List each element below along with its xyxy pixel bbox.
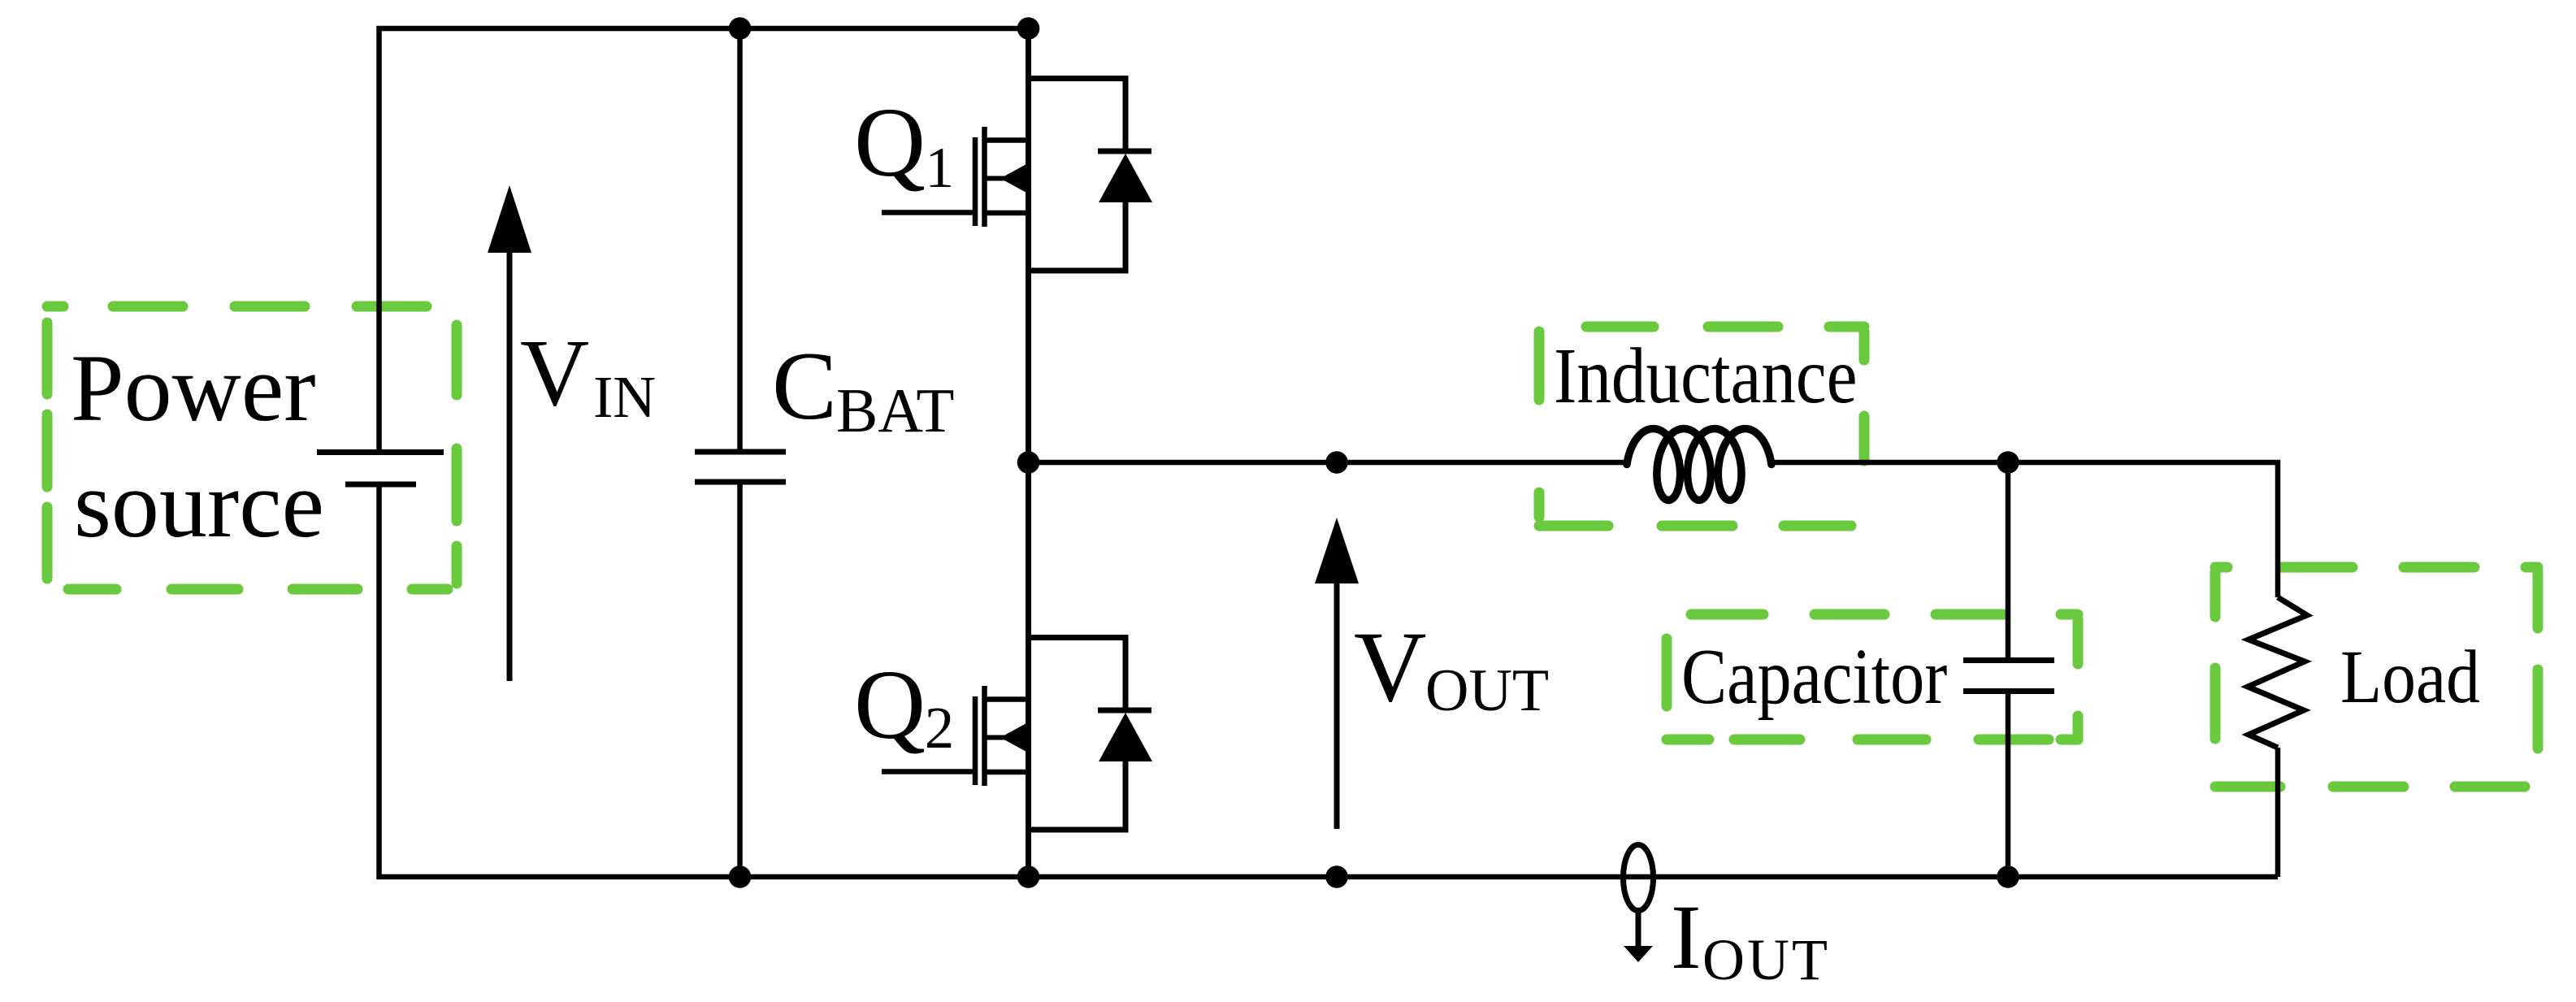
battery power source plates: [317, 449, 444, 455]
Q1 gate bar: [973, 137, 978, 226]
svg-text:Q: Q: [854, 650, 926, 760]
inductance dashed box: [1539, 327, 1864, 526]
node dot bottom Q2: [1017, 865, 1040, 888]
svg-text:2: 2: [925, 695, 955, 761]
wire: capacitor branch lower: [2006, 694, 2011, 877]
wire: capacitor branch upper: [2006, 462, 2011, 657]
wire: battery bottom to bottom-left corner and bottom rail: [379, 488, 2279, 878]
node dot bottom Vout: [1325, 865, 1348, 888]
Q2 drain lead: [987, 696, 1030, 702]
wire: mid rail right of inductor to load corner: [1772, 462, 2278, 597]
capacitor dashed box: [1667, 614, 2078, 740]
Q2 body connection with arrow: [986, 735, 1028, 740]
wire: CBAT branch upper: [737, 28, 743, 449]
node dot bottom capacitor: [1997, 865, 2019, 888]
svg-text:Inductance: Inductance: [1554, 332, 1858, 419]
svg-text:OUT: OUT: [1425, 657, 1549, 724]
transistor Q1: [882, 127, 1030, 227]
wire: mid rail left of inductor: [1028, 460, 1627, 466]
load resistor zigzag: [2248, 597, 2307, 748]
svg-text:C: C: [772, 332, 837, 440]
Q1 body connection with arrow: [986, 176, 1028, 181]
svg-text:IN: IN: [593, 364, 656, 430]
wire: CBAT branch lower: [737, 484, 743, 877]
svg-text:Capacitor: Capacitor: [1681, 632, 1947, 720]
power source dashed box: [47, 306, 457, 589]
body diode of Q2: [1028, 638, 1152, 831]
svg-text:V: V: [1354, 611, 1427, 722]
svg-text:Load: Load: [2340, 635, 2480, 719]
capacitor CBAT plates: [695, 449, 786, 455]
I_OUT current sensor ellipse: [1624, 845, 1654, 911]
load dashed box: [2215, 567, 2538, 787]
inductor coil: [1627, 429, 1772, 501]
wire: load bottom lead: [2275, 748, 2281, 877]
Q2 gate bar: [973, 696, 978, 785]
wire: battery top to top-left corner and top rail: [379, 28, 1032, 449]
V_IN arrow: [507, 248, 513, 681]
node dot mid Vout: [1325, 451, 1348, 474]
svg-text:V: V: [520, 319, 589, 426]
I_OUT arrow: [1636, 910, 1641, 948]
V_OUT arrow: [1334, 579, 1340, 829]
body diode of Q1: [1028, 79, 1152, 271]
Q1 source lead: [987, 210, 1030, 216]
node dot top CBAT: [729, 17, 752, 40]
Q2 source lead: [987, 770, 1030, 775]
svg-text:BAT: BAT: [836, 375, 954, 445]
svg-text:Power: Power: [71, 335, 316, 441]
wire: main switch vertical: [1026, 26, 1031, 877]
svg-text:Q: Q: [854, 88, 926, 197]
svg-text:source: source: [74, 451, 324, 557]
svg-text:OUT: OUT: [1702, 927, 1830, 992]
Q1 channel bar: [982, 127, 987, 227]
Q1 drain lead: [987, 137, 1030, 143]
Q2 channel bar: [982, 686, 987, 786]
transistor Q2: [882, 686, 1030, 786]
node dot mid capacitor: [1997, 451, 2019, 474]
node dot mid switch: [1017, 451, 1040, 474]
Q2 gate lead: [882, 769, 978, 774]
Q1 gate lead: [882, 210, 978, 215]
node dot bottom CBAT: [729, 865, 752, 888]
svg-text:I: I: [1671, 887, 1702, 988]
svg-text:1: 1: [926, 137, 955, 200]
node dot top Q1: [1017, 17, 1040, 40]
output capacitor plates: [1963, 657, 2054, 663]
